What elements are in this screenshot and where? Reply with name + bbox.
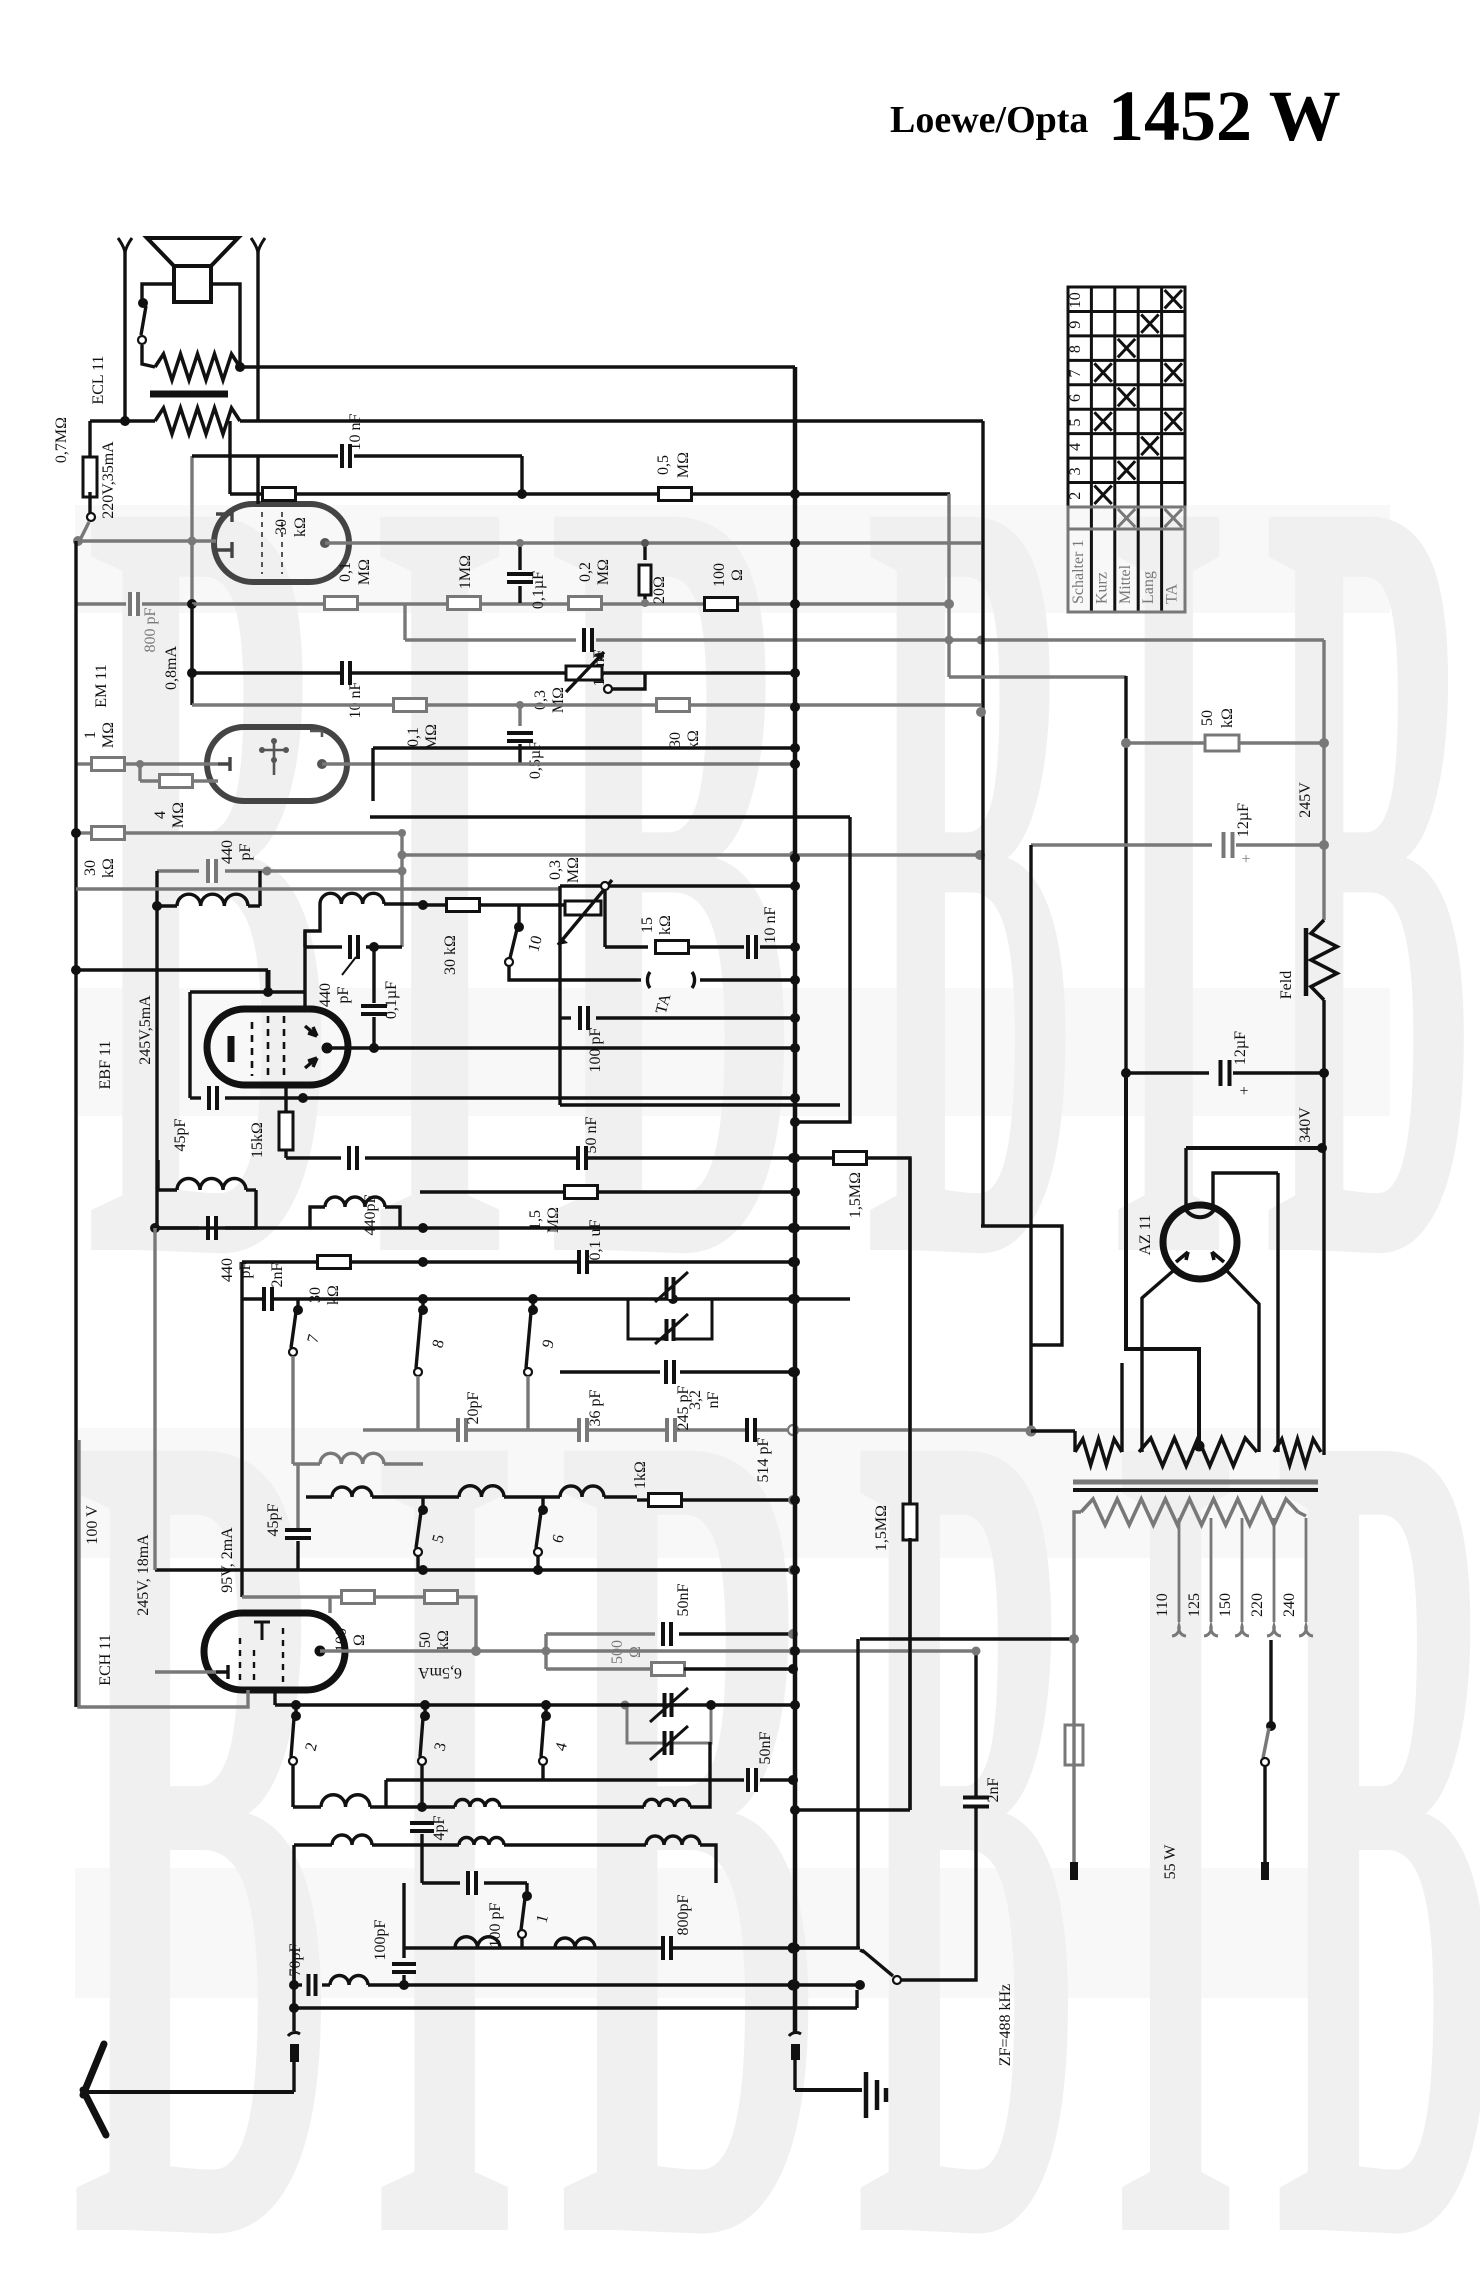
svg-text:0,2: 0,2 — [577, 562, 594, 582]
wire row 886 pot — [76, 887, 560, 890]
coil row 1497 — [332, 1487, 372, 1497]
resistor 4 Mohm — [136, 760, 144, 768]
resistor 100 ohm — [705, 598, 738, 611]
svg-text:10 nF: 10 nF — [347, 413, 364, 450]
svg-text:0,1µF: 0,1µF — [530, 571, 547, 609]
speaker terminal right — [251, 238, 265, 254]
mains switch — [1266, 1721, 1276, 1731]
svg-text:+: + — [1241, 851, 1250, 868]
switch 5 — [418, 1505, 428, 1515]
wire 1810 row — [795, 1808, 910, 1811]
svg-text:220: 220 — [1249, 1593, 1266, 1617]
svg-text:30: 30 — [273, 519, 290, 535]
svg-text:Lang: Lang — [1140, 571, 1157, 604]
svg-text:4: 4 — [152, 811, 169, 819]
svg-text:125: 125 — [1186, 1593, 1203, 1617]
wire 1105 row — [560, 1103, 840, 1106]
svg-text:0,3: 0,3 — [547, 860, 564, 880]
wire AZ11 top — [1186, 1146, 1322, 1150]
svg-text:12µF: 12µF — [1232, 1031, 1249, 1065]
capacitor 0,5 uF — [516, 701, 524, 709]
switch 2 — [291, 1711, 301, 1721]
svg-text:Loewe/Opta: Loewe/Opta — [890, 99, 1088, 141]
wire x858 to ZF switch — [856, 1639, 859, 1948]
svg-text:100 V: 100 V — [84, 1505, 101, 1545]
resistor 15 kohm — [279, 1112, 293, 1150]
svg-text:50nF: 50nF — [757, 1731, 774, 1764]
svg-text:0,1: 0,1 — [337, 562, 354, 582]
wire 1948 row — [404, 1946, 860, 1949]
svg-text:30 kΩ: 30 kΩ — [442, 935, 459, 975]
svg-text:20pF: 20pF — [465, 1391, 482, 1424]
resistor 100 ohm (osc anode) — [242, 1595, 342, 1598]
svg-text:pF: pF — [335, 986, 352, 1003]
svg-text:ZF=488 kHz: ZF=488 kHz — [997, 1984, 1014, 2066]
capacitor 440 pF (EBF anode) — [305, 945, 342, 948]
svg-text:6: 6 — [1067, 394, 1084, 402]
wire speaker loop — [142, 284, 174, 300]
antenna arrow — [86, 2090, 294, 2094]
resistor 50 kohm (osc) — [374, 1595, 425, 1598]
coil row 1948 — [455, 1937, 500, 1948]
svg-text:245 pF: 245 pF — [675, 1385, 692, 1430]
svg-text:MΩ: MΩ — [423, 724, 440, 750]
watermark BIB row1 — [85, 252, 1480, 1493]
mains transformer secondary windings — [1075, 1439, 1122, 1465]
switch 9 — [528, 1305, 538, 1315]
resistor 30 kohm (IF screen) — [423, 903, 446, 906]
switch 8 — [418, 1305, 428, 1315]
svg-text:ECL 11: ECL 11 — [90, 355, 107, 404]
svg-text:150: 150 — [1217, 1593, 1234, 1617]
switch 6 — [538, 1505, 548, 1515]
main bus vertical x793 (chassis) — [793, 367, 798, 2032]
gray box ECH — [79, 1440, 248, 1707]
wire 1157 row (IF out) — [286, 1156, 341, 1159]
svg-text:Feld: Feld — [1278, 971, 1295, 999]
switch 1 — [522, 1891, 532, 1901]
capacitor 2 nF (ZF) — [963, 1797, 989, 1808]
svg-text:10 nF: 10 nF — [762, 906, 779, 943]
output transformer primary winding — [155, 354, 240, 380]
wire x157 down — [155, 906, 158, 1228]
resistor 0,2 Mohm — [569, 597, 602, 610]
svg-text:45pF: 45pF — [265, 1503, 282, 1536]
svg-text:5: 5 — [1067, 418, 1084, 426]
svg-text:kΩ: kΩ — [100, 858, 117, 878]
wire speaker bus top — [240, 365, 795, 368]
capacitor 20 pF — [457, 1418, 467, 1442]
svg-text:50: 50 — [1199, 710, 1216, 726]
wire HT center tap — [1126, 1073, 1199, 1448]
svg-text:0,1: 0,1 — [405, 727, 422, 747]
resistor 1,5 Mohm (osc grid) — [903, 1504, 917, 1540]
potentiometer 0,3 Mohm (IF) — [560, 884, 793, 887]
svg-text:3: 3 — [1067, 467, 1084, 475]
svg-text:pF: pF — [237, 1261, 254, 1278]
svg-text:0,1 uF: 0,1 uF — [587, 1219, 604, 1260]
svg-text:MΩ: MΩ — [595, 559, 612, 585]
resistor 1 Mohm — [448, 597, 481, 610]
switch below 0.7M — [87, 513, 95, 521]
svg-text:9: 9 — [1067, 321, 1084, 329]
svg-text:2nF: 2nF — [985, 1777, 1002, 1802]
IF2 coil top — [320, 893, 384, 904]
wire x560 rows stub — [558, 886, 561, 1105]
svg-text:800pF: 800pF — [675, 1894, 692, 1935]
switch 7 — [293, 1305, 303, 1315]
wire x192 down to 705 — [190, 604, 193, 705]
capacitor 3,2 nF — [560, 1370, 660, 1373]
wire AZ11 filament left — [1142, 1271, 1173, 1452]
svg-text:50nF: 50nF — [675, 1583, 692, 1616]
wire EBF cathode down — [284, 1085, 287, 1112]
resistor 1 Mohm (EM grid) — [76, 762, 92, 765]
wire bus second — [240, 419, 983, 422]
watermark background bands — [75, 505, 1390, 1998]
switch 4 — [541, 1711, 551, 1721]
capacitor 245 pF — [666, 1418, 676, 1442]
svg-text:240: 240 — [1281, 1593, 1298, 1617]
capacitor 2 nF — [263, 1287, 273, 1311]
wire EBF top row 970 — [76, 968, 268, 971]
svg-text:100: 100 — [711, 563, 728, 587]
ZF switch — [860, 1950, 864, 1952]
coil row 1807 — [321, 1795, 370, 1807]
svg-text:nF: nF — [705, 1391, 722, 1408]
capacitor 800 pF — [76, 602, 126, 605]
svg-text:kΩ: kΩ — [292, 517, 309, 537]
svg-text:100 pF: 100 pF — [587, 1027, 604, 1072]
capacitor 514 pF — [746, 1418, 756, 1442]
svg-text:15kΩ: 15kΩ — [249, 1122, 266, 1158]
capacitor 36 pF — [578, 1418, 588, 1442]
capacitor 100 pF (bandset) — [422, 1881, 460, 1884]
switch 10 — [514, 922, 524, 932]
wire EBF plate — [322, 1043, 333, 1054]
svg-text:1452 W: 1452 W — [1108, 76, 1341, 156]
svg-text:kΩ: kΩ — [1219, 708, 1236, 728]
svg-text:MΩ: MΩ — [170, 802, 187, 828]
IF transformer 2 coil upper — [177, 1178, 246, 1190]
bus vertical x983 — [981, 421, 984, 1226]
svg-text:110: 110 — [1154, 1593, 1171, 1616]
svg-text:MΩ: MΩ — [550, 687, 567, 713]
wire ECH top — [328, 1597, 331, 1613]
svg-text:245V: 245V — [1297, 782, 1314, 818]
svg-text:220V,35mA: 220V,35mA — [100, 441, 117, 519]
svg-text:0,1µF: 0,1µF — [383, 981, 400, 1019]
resistor 0,1 Mohm (AVC) — [394, 699, 427, 712]
wire mains input left + fuse — [860, 1637, 1074, 1640]
svg-text:1,5MΩ: 1,5MΩ — [873, 1505, 890, 1551]
variable capacitor block (tuning) — [668, 1294, 678, 1304]
wire 743 row + resistor 50 kohm — [1121, 738, 1131, 748]
svg-text:30: 30 — [667, 732, 684, 748]
wire gray 604 end — [944, 599, 954, 609]
svg-text:2nF: 2nF — [269, 1262, 286, 1287]
svg-text:1kΩ: 1kΩ — [632, 1461, 649, 1489]
svg-text:340V: 340V — [1297, 1107, 1314, 1143]
svg-text:36 pF: 36 pF — [587, 1389, 604, 1426]
svg-text:kΩ: kΩ — [325, 1285, 342, 1305]
wire gray 604 row — [192, 602, 948, 605]
svg-text:0,8mA: 0,8mA — [163, 646, 180, 690]
capacitor 0,1 uF (osc) — [578, 1250, 588, 1274]
svg-text:10: 10 — [1067, 292, 1084, 308]
wire 1228 long — [155, 1226, 850, 1229]
resistor 15 Mohm vert line — [788, 1153, 798, 1163]
svg-text:MΩ: MΩ — [675, 452, 692, 478]
svg-text:Kurz: Kurz — [1093, 572, 1110, 604]
svg-text:ECH 11: ECH 11 — [97, 1634, 114, 1685]
wire left end 421 — [90, 419, 155, 422]
svg-text:BIB: BIB — [70, 1169, 856, 2272]
capacitor 12 uF (electrolytic 2) — [1126, 1071, 1209, 1074]
wire AZ11 filament right — [1227, 1271, 1259, 1452]
switch on speaker — [138, 298, 148, 308]
capacitor 4 pF — [410, 1822, 434, 1832]
capacitor 50 nF (det) — [577, 1146, 587, 1170]
svg-text:0,7MΩ: 0,7MΩ — [53, 417, 70, 463]
svg-text:TA: TA — [1164, 584, 1181, 604]
coil row 1464 — [320, 1453, 384, 1464]
capacitor 100 pF (ant) — [402, 1883, 405, 1958]
svg-text:8: 8 — [1067, 345, 1084, 353]
coil row 1845 — [332, 1835, 372, 1845]
wire gray jog to 855 — [400, 833, 403, 947]
svg-text:1MΩ: 1MΩ — [457, 555, 474, 589]
wire 494 corner — [947, 494, 950, 677]
capacitor 800 pF — [662, 1936, 672, 1960]
mains transformer primary winding — [1081, 1499, 1298, 1525]
wire ECL11 plate — [320, 538, 330, 548]
speaker LS — [147, 238, 238, 266]
wire heater chain right — [981, 1226, 1062, 1345]
svg-text:EM 11: EM 11 — [93, 664, 110, 707]
watermark BIB row2 — [70, 1169, 1480, 2277]
svg-text:15: 15 — [639, 917, 656, 933]
bus hook to ground — [789, 2033, 801, 2036]
svg-text:1,5MΩ: 1,5MΩ — [847, 1172, 864, 1218]
svg-text:kΩ: kΩ — [657, 915, 674, 935]
svg-text:10 nF: 10 nF — [347, 681, 364, 718]
resistor 15 Mohm (AVC) — [565, 1186, 598, 1199]
capacitor 50 nF (AVC) — [544, 1634, 547, 1669]
svg-text:440: 440 — [317, 983, 334, 1007]
resistor 0,1 Mohm (AF grid) — [325, 597, 358, 610]
wire EM11 plate out — [317, 759, 327, 769]
svg-text:7: 7 — [1067, 370, 1084, 378]
output transformer secondary winding — [155, 408, 240, 434]
resistor 500 ohm — [546, 1667, 652, 1670]
wire anode row 494 — [228, 421, 231, 494]
svg-text:6,5mA: 6,5mA — [418, 1664, 462, 1681]
output transformer core — [150, 391, 228, 398]
ground symbol — [795, 2088, 862, 2092]
resistor 0,5 Mohm — [659, 488, 692, 501]
rail 245V x1324 — [1322, 640, 1325, 920]
wire ECH plate row 1651 — [315, 1646, 326, 1657]
wire x910 AVC down — [908, 1158, 911, 1507]
switch position table (Schalter 1-10 / Kurz Mittel Lang TA) — [1068, 287, 1185, 612]
svg-text:440: 440 — [219, 840, 236, 864]
wire x1124 down — [1124, 676, 1127, 1073]
capacitor 45 pF — [190, 1096, 201, 1099]
wire 1570 long — [155, 1568, 793, 1571]
svg-text:800 pF: 800 pF — [142, 607, 159, 652]
svg-text:AZ 11: AZ 11 — [1137, 1215, 1154, 1256]
svg-text:55 W: 55 W — [1162, 1844, 1179, 1880]
wire x1031 down — [1029, 845, 1032, 1431]
svg-text:Mittel: Mittel — [1117, 564, 1134, 604]
wire x976 top segment — [972, 1647, 981, 1656]
svg-text:Ω: Ω — [729, 569, 746, 581]
wire 992 loop — [190, 990, 305, 993]
svg-text:50: 50 — [417, 1632, 434, 1648]
wire AVC row 707 — [192, 703, 981, 706]
switch 3 — [420, 1711, 430, 1721]
resistor 30 kohm (AVC) — [657, 699, 690, 712]
capacitor 0,1 uF (coupling) — [518, 543, 521, 570]
svg-text:0,3: 0,3 — [532, 690, 549, 710]
coil antenna — [330, 1976, 368, 1986]
resistor 1 kohm — [649, 1494, 682, 1507]
svg-text:2: 2 — [1067, 492, 1084, 500]
svg-text:MΩ: MΩ — [356, 559, 373, 585]
wire grid gray — [78, 539, 216, 542]
svg-text:45pF: 45pF — [172, 1118, 189, 1151]
wire gray 1430 long — [363, 1428, 1030, 1431]
svg-text:30: 30 — [82, 860, 99, 876]
capacitor 12 uF (electrolytic 1) — [1031, 843, 1212, 846]
svg-text:440: 440 — [219, 1258, 236, 1282]
wire 676 row — [949, 675, 1126, 678]
capacitor 10 nF (TA) — [747, 935, 757, 959]
capacitor 100 pF — [560, 1016, 571, 1019]
wire ECH bottom to switches — [273, 1690, 276, 1705]
wire 1780 row — [386, 1778, 744, 1781]
svg-text:12µF: 12µF — [1235, 803, 1252, 837]
resistor 20 ohm — [639, 565, 651, 595]
capacitor 10 nF row 673 — [341, 661, 351, 685]
svg-text:BIB: BIB — [855, 1170, 1480, 2272]
wire x850 — [793, 817, 850, 1122]
svg-text:245V,5mA: 245V,5mA — [137, 995, 154, 1065]
svg-text:0,5: 0,5 — [655, 455, 672, 475]
svg-text:95V, 2mA: 95V, 2mA — [219, 1527, 236, 1593]
wire AZ11 anode right — [1213, 1173, 1278, 1206]
resistor 30 kohm (osc) — [242, 1260, 318, 1263]
capacitor 10 nF (AF) — [354, 454, 522, 457]
svg-text:4pF: 4pF — [431, 1815, 448, 1840]
resistor 30 kohm (AF) — [263, 488, 296, 501]
wire 2008 row — [294, 2006, 857, 2009]
antenna lead — [292, 1948, 295, 2031]
wire 1299 long — [242, 1297, 850, 1300]
resistor 0,7 Mohm — [88, 421, 91, 462]
svg-text:Ω: Ω — [351, 1634, 368, 1646]
svg-text:20Ω: 20Ω — [651, 576, 668, 604]
speaker terminal left — [118, 238, 132, 254]
svg-text:MΩ: MΩ — [100, 722, 117, 748]
resistor Feld (field coil) — [1311, 920, 1337, 1000]
resistor 30 kohm (EM) — [76, 831, 92, 834]
capacitor 440 pF (IF2) — [158, 1226, 199, 1229]
resistor 15 kohm (TA) — [605, 945, 648, 948]
svg-text:514 pF: 514 pF — [755, 1437, 772, 1482]
svg-text:Schalter 1: Schalter 1 — [1070, 540, 1087, 604]
variable capacitor block (osc trimmer) — [627, 1705, 711, 1743]
capacitor 10 nF (tone) — [403, 603, 406, 640]
svg-text:MΩ: MΩ — [565, 857, 582, 883]
TA pickup — [647, 972, 694, 988]
capacitor 45 pF (osc pad) — [296, 1464, 299, 1528]
mains transformer core — [1073, 1480, 1318, 1485]
svg-text:100: 100 — [333, 1628, 350, 1652]
wire gray 1431 junction — [1026, 1426, 1037, 1437]
IF transformer 1 coil — [157, 869, 199, 872]
primary taps — [1178, 1518, 1181, 1622]
wire EM11 lower to 748 — [371, 748, 374, 801]
svg-text:kΩ: kΩ — [435, 1630, 452, 1650]
capacitor 70 pF — [296, 1983, 302, 1986]
capacitor 0,1 uF (EBF) — [372, 947, 375, 1003]
wire coil2 right down — [384, 904, 423, 905]
svg-text:1: 1 — [82, 731, 99, 739]
svg-text:+: + — [1239, 1083, 1248, 1100]
potentiometer 0,3 Mohm (tone) — [192, 671, 793, 674]
wire left bus x76 — [74, 541, 77, 1707]
svg-text:245V, 18mA: 245V, 18mA — [135, 1534, 152, 1616]
svg-text:pF: pF — [237, 843, 254, 860]
svg-text:100pF: 100pF — [372, 1919, 389, 1960]
svg-text:4: 4 — [1067, 443, 1084, 451]
svg-text:50 nF: 50 nF — [583, 1116, 600, 1153]
coil IF2 lower — [325, 1197, 385, 1207]
svg-text:EBF 11: EBF 11 — [97, 1041, 114, 1090]
